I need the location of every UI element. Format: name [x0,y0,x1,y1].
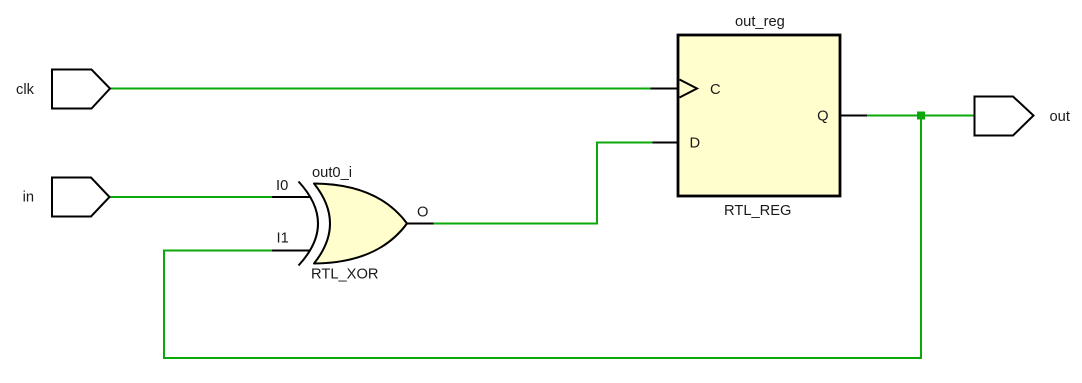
svg-text:RTL_REG: RTL_REG [724,203,791,219]
xor gate body RTL_XOR out0_i [314,184,407,264]
junction on out net [917,112,925,120]
wire O to D net (green) [434,143,653,224]
svg-text:O: O [417,205,428,221]
xor gate leading arc [299,182,319,266]
svg-text:D: D [690,136,701,152]
svg-text:I0: I0 [276,178,288,194]
svg-text:clk: clk [16,82,35,98]
port in [52,178,110,217]
svg-text:out: out [1050,109,1070,125]
wire Q to out net (green) [867,115,975,117]
wire D stub (black) [653,142,679,144]
wire clk net (green) [110,88,651,90]
svg-text:RTL_XOR: RTL_XOR [311,267,378,283]
wire I1 stub (black) [272,250,310,252]
svg-text:out_reg: out_reg [735,14,785,30]
port clk [52,70,110,109]
clock wedge on C pin [680,80,698,98]
wire O output stub (black) [407,223,434,225]
wire in stub to I0 pin (black) [272,196,311,198]
wire Q stub (black) [840,115,867,117]
port out [975,97,1034,136]
register out_reg RTL_REG box [678,35,840,196]
svg-text:in: in [23,190,34,206]
svg-text:Q: Q [817,109,828,125]
svg-text:out0_i: out0_i [312,165,352,181]
wire clk stub to C pin (black) [651,88,679,90]
svg-text:I1: I1 [277,231,289,247]
svg-text:C: C [710,82,721,98]
wire feedback net (green) [164,116,921,359]
wire in net (green) [110,196,273,198]
